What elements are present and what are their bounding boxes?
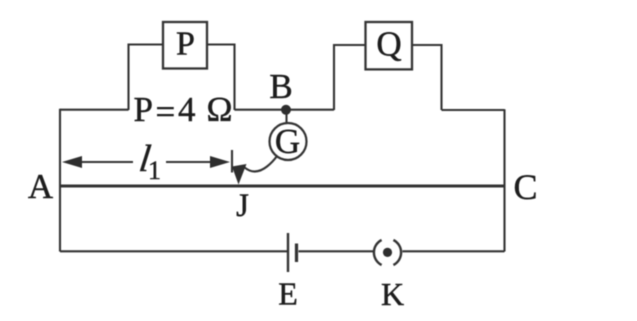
svg-text:Ω: Ω <box>207 90 233 129</box>
svg-text:P: P <box>134 90 153 129</box>
svg-text:K: K <box>381 276 404 312</box>
svg-text:1: 1 <box>148 156 161 185</box>
svg-text:C: C <box>513 167 537 207</box>
svg-text:=: = <box>156 93 176 132</box>
svg-text:P: P <box>176 26 195 63</box>
svg-text:E: E <box>278 276 298 312</box>
svg-text:B: B <box>269 67 292 106</box>
svg-text:4: 4 <box>178 90 196 129</box>
svg-text:Q: Q <box>376 25 401 64</box>
svg-text:G: G <box>275 122 300 161</box>
svg-text:J: J <box>236 188 249 224</box>
svg-text:A: A <box>28 167 54 206</box>
